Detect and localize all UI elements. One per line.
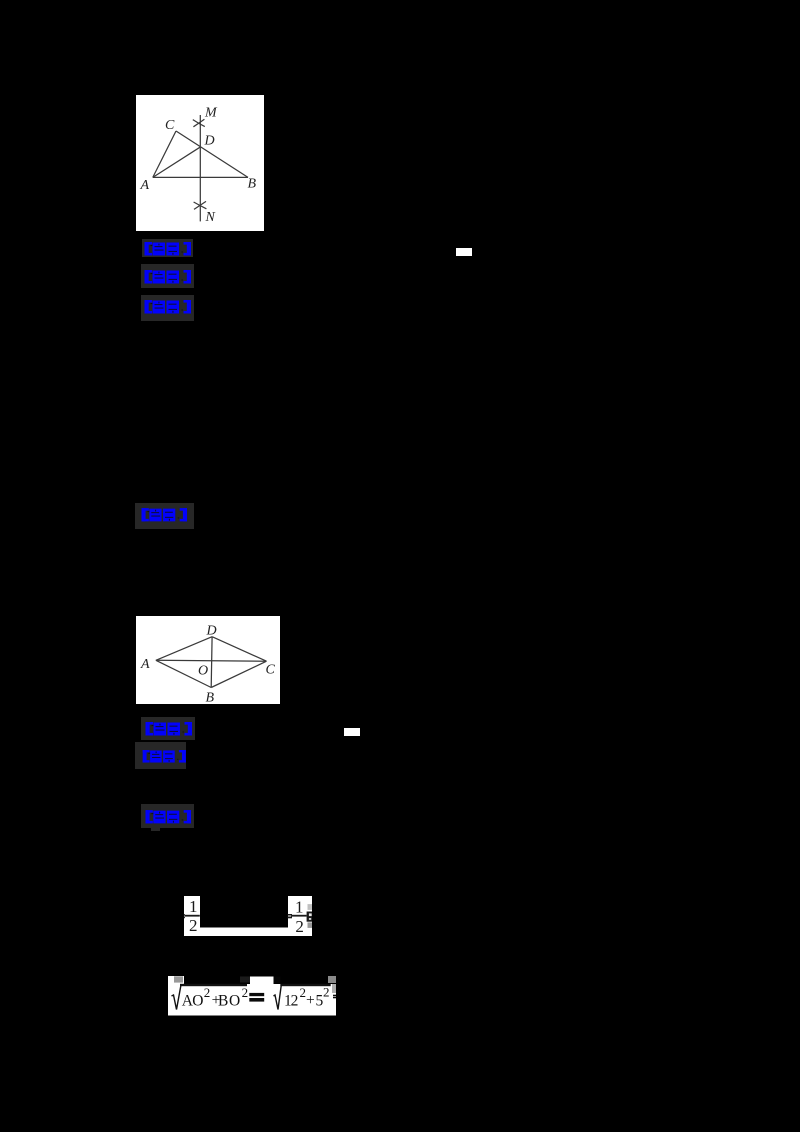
arc mark M [193, 120, 205, 127]
svg-text:2: 2 [242, 985, 249, 1000]
section label 1 blue bracket text (kaodian) with jpeg halo [142, 239, 193, 257]
svg-text:B: B [206, 691, 215, 705]
radical bar 1 [180, 984, 247, 986]
svg-text:1: 1 [189, 897, 198, 916]
svg-text:D: D [206, 624, 217, 639]
wire CB [211, 661, 266, 687]
svg-text:B: B [248, 177, 257, 192]
svg-text:C: C [165, 118, 175, 133]
wire BA [156, 660, 211, 687]
wire CB [176, 131, 248, 177]
vertex labels A D C B O [140, 624, 276, 706]
small inline white formula image 2 [344, 728, 360, 736]
arc mark N [194, 202, 207, 209]
section label 3 blue bracket text (jieda) with jpeg halo [141, 295, 194, 321]
wire AD [153, 147, 201, 178]
svg-text:2: 2 [300, 985, 307, 1000]
radical sign 1 [172, 985, 182, 1010]
wire MN vertical [199, 115, 201, 221]
figure image 2: rhombus ABCD with diagonals AC and BD meeting at O [136, 616, 280, 704]
wire DB diagonal [210, 637, 213, 688]
equation image 2: sqrt(AO^2+BO^2) = sqrt(12^2+5^2) with sizing handles [168, 976, 342, 1016]
wire AD [156, 637, 212, 661]
wire AB [153, 176, 248, 178]
svg-text:2: 2 [295, 917, 304, 936]
svg-text:B: B [218, 992, 228, 1009]
radical sign 2 [274, 985, 282, 1010]
equation image 1: one-half fractions with connecting white strip [182, 894, 314, 938]
svg-text:A: A [140, 657, 150, 672]
section label 2 blue bracket text (fenxi) with jpeg halo [141, 264, 194, 288]
svg-text:O: O [229, 993, 240, 1010]
svg-text:1: 1 [295, 897, 304, 916]
section label 6 blue bracket text (fenxi) with jpeg halo [135, 742, 186, 769]
svg-text:A: A [140, 178, 150, 193]
radical bar 2 [280, 984, 330, 986]
section label 5 blue bracket text (kaodian) with jpeg halo [141, 717, 195, 740]
figure image 1: triangle ABC with perpendicular bisector MN of AB [136, 95, 264, 231]
small inline white formula image 1 [456, 248, 472, 256]
svg-text:M: M [204, 105, 218, 120]
svg-text:2: 2 [291, 992, 299, 1009]
svg-text:O: O [192, 993, 203, 1010]
svg-text:2: 2 [189, 916, 198, 935]
vertex labels M C D A B N [140, 105, 257, 225]
svg-text:+: + [306, 992, 315, 1009]
svg-text:O: O [198, 663, 208, 678]
wire AC [153, 131, 176, 177]
section label 7 blue bracket text (jieda) with jpeg halo [141, 804, 194, 828]
svg-text:D: D [204, 133, 215, 148]
wire DC [212, 637, 266, 662]
svg-text:C: C [266, 663, 276, 678]
svg-text:2: 2 [323, 985, 330, 1000]
svg-text:N: N [205, 210, 216, 225]
section label 4 blue bracket text (dianping) with jpeg halo [135, 503, 194, 529]
wire AC diagonal [156, 659, 267, 662]
svg-text:2: 2 [204, 985, 211, 1000]
